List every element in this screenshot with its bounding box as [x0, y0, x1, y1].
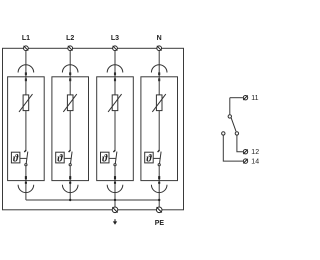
svg-text:12: 12 [251, 149, 259, 156]
svg-text:11: 11 [251, 95, 258, 102]
svg-text:L1: L1 [22, 35, 30, 42]
svg-text:14: 14 [251, 159, 259, 166]
svg-text:ϑ: ϑ [102, 154, 108, 165]
svg-text:L3: L3 [111, 35, 119, 42]
svg-text:ϑ: ϑ [57, 154, 63, 165]
svg-text:ϑ: ϑ [13, 154, 19, 165]
svg-text:N: N [157, 35, 162, 42]
svg-text:PE: PE [155, 220, 165, 227]
svg-text:ϑ: ϑ [146, 154, 152, 165]
svg-text:L2: L2 [66, 35, 74, 42]
